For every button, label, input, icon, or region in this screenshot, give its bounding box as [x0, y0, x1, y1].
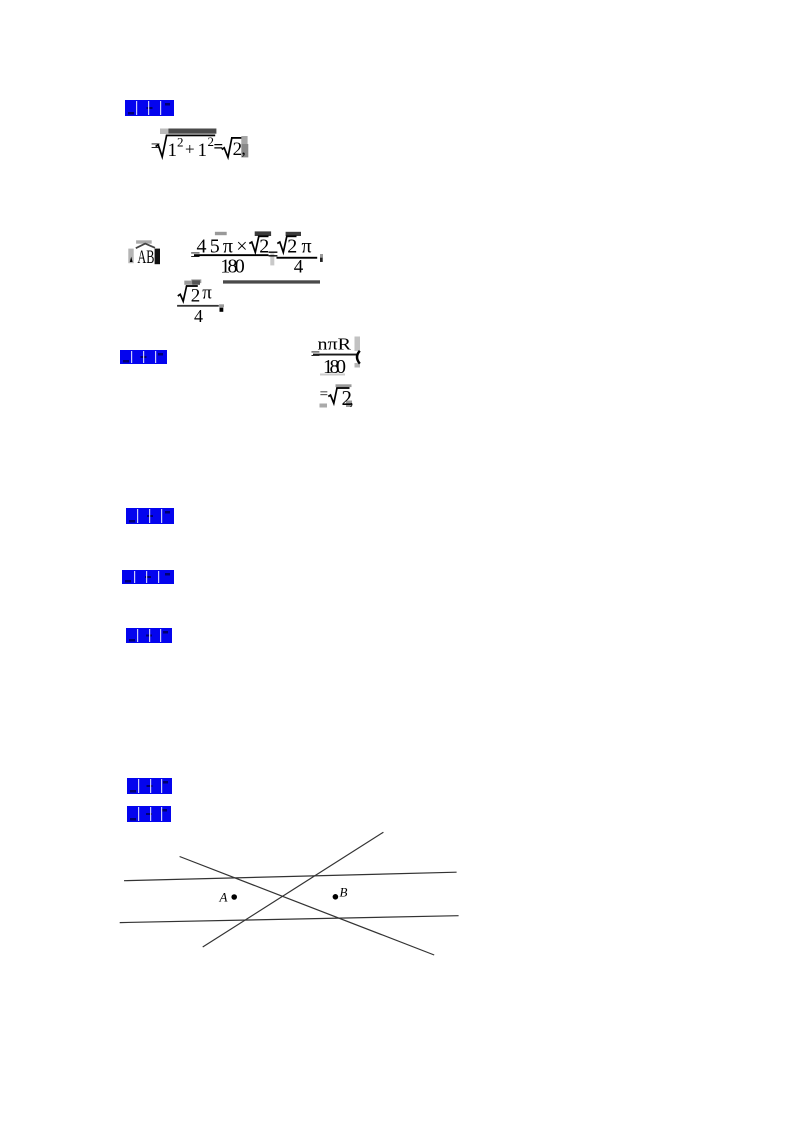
svg-text:π: π	[202, 283, 212, 304]
blue label L6	[127, 778, 172, 794]
blue label L3	[126, 508, 174, 524]
svg-text:4: 4	[194, 306, 203, 326]
formula F4: = n pi R / 180 (	[311, 335, 360, 378]
svg-text:+: +	[185, 140, 195, 159]
figure line 2 (lower transversal)	[120, 916, 459, 923]
svg-text:π: π	[302, 236, 312, 258]
svg-text:,: ,	[242, 140, 246, 159]
figure line 1 (upper transversal)	[124, 872, 457, 881]
blue label L2	[120, 350, 167, 364]
svg-text:A: A	[219, 889, 228, 904]
svg-text:AB: AB	[137, 247, 154, 268]
blue label L5	[126, 628, 172, 643]
formula F1: =sqrt(1^2+1^2)=sqrt(2),	[151, 129, 249, 161]
svg-text:nπR: nπR	[318, 335, 352, 354]
figure line 4 (diagonal up-right)	[203, 832, 384, 947]
svg-text:=: =	[214, 137, 224, 156]
svg-text:1: 1	[198, 140, 208, 161]
svg-text:=: =	[268, 245, 279, 266]
svg-text:=: =	[320, 387, 328, 403]
geometry figure	[120, 824, 472, 960]
arc AB box	[128, 240, 160, 268]
blue label L4	[122, 570, 174, 584]
formula F2: =(45pi x sqrt2)/180 = sqrt2 pi /4	[190, 231, 323, 283]
blue label L1	[125, 100, 174, 116]
formula F3: sqrt2 pi / 4 .	[177, 280, 224, 326]
svg-text:2: 2	[287, 236, 297, 258]
blue label L7	[127, 806, 171, 822]
svg-text:4: 4	[294, 256, 304, 277]
svg-text:2: 2	[177, 135, 184, 150]
svg-text:B: B	[340, 884, 348, 899]
svg-text:1: 1	[168, 140, 178, 161]
svg-text:,: ,	[350, 392, 354, 409]
svg-text:180: 180	[220, 256, 245, 278]
formula F5: = sqrt 2 ,	[320, 384, 354, 410]
point B	[333, 894, 339, 900]
svg-text:2: 2	[191, 285, 201, 306]
point A	[231, 894, 237, 900]
figure line 3 (diagonal down-right)	[180, 857, 435, 956]
